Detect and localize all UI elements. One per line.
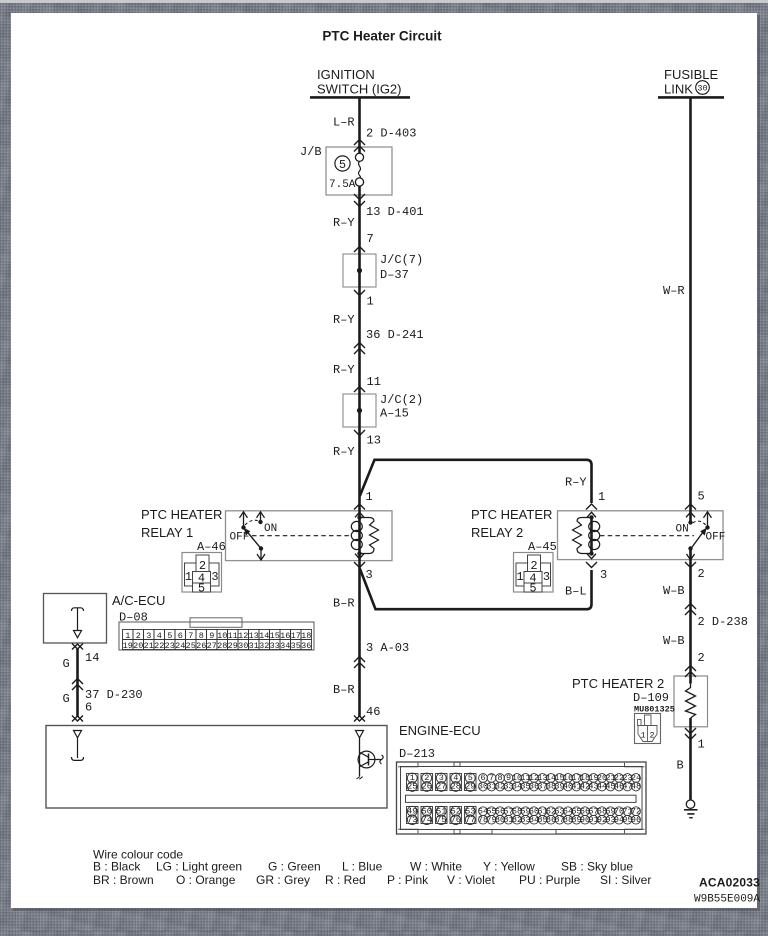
svg-text:6: 6: [85, 701, 92, 715]
svg-text:RELAY 1: RELAY 1: [141, 525, 193, 540]
relay 1 switch blade: [244, 528, 251, 536]
svg-text:W : White: W : White: [410, 860, 462, 874]
svg-text:14: 14: [85, 651, 99, 665]
svg-text:B : Black: B : Black: [93, 860, 141, 874]
relay 2 coil pin arrows and joints: [587, 512, 596, 517]
relay1 pin 3: [354, 562, 365, 568]
svg-text:2 D-238: 2 D-238: [698, 615, 748, 629]
svg-text:3: 3: [543, 570, 550, 584]
svg-text:PTC HEATER: PTC HEATER: [471, 507, 552, 522]
A/C-ECU box: [44, 594, 107, 644]
svg-text:6: 6: [178, 631, 183, 641]
relay 1 switch travel arc: [245, 520, 258, 525]
svg-text:ENGINE-ECU: ENGINE-ECU: [399, 723, 481, 738]
ground: [686, 800, 694, 808]
svg-text:W–R: W–R: [663, 284, 685, 298]
wire: ignition switch to J/B fuse: [358, 98, 361, 154]
relay 1 coil pin arrows and joints: [355, 512, 364, 517]
svg-text:2: 2: [698, 651, 705, 665]
svg-text:LG : Light green: LG : Light green: [156, 860, 242, 874]
A/C-ECU internal driver symbol: [72, 608, 84, 611]
relay 2 resistor: [573, 518, 592, 554]
svg-text:R : Red: R : Red: [325, 873, 366, 887]
svg-text:9: 9: [209, 631, 214, 641]
svg-text:FUSIBLE: FUSIBLE: [664, 67, 719, 82]
PTC heater 2 pin 1: [685, 728, 696, 734]
svg-text:OFF: OFF: [706, 532, 726, 544]
svg-text:48: 48: [631, 782, 641, 792]
joint connector J/C(7) D-37 box: [343, 254, 376, 287]
connector grid ENGINE-ECU D-213: [397, 762, 647, 834]
svg-text:3: 3: [146, 631, 151, 641]
connector 2 D-238: [685, 604, 696, 610]
svg-text:29: 29: [228, 641, 238, 651]
svg-text:27: 27: [207, 641, 217, 651]
svg-text:ON: ON: [264, 523, 277, 535]
PTC HEATER 2 resistor box: [674, 676, 708, 727]
svg-text:11: 11: [367, 375, 381, 389]
svg-text:7: 7: [367, 232, 374, 246]
svg-text:28: 28: [217, 641, 227, 651]
wire: relay 2 switch output down to PTC heater 2: [689, 549, 692, 684]
svg-text:22: 22: [154, 641, 164, 651]
svg-text:SI : Silver: SI : Silver: [600, 873, 651, 887]
A/C-ECU pin 14: [72, 644, 83, 650]
ENGINE-ECU box: [46, 726, 387, 809]
svg-text:10: 10: [217, 631, 227, 641]
svg-text:RELAY 2: RELAY 2: [471, 525, 523, 540]
svg-text:36 D-241: 36 D-241: [366, 328, 424, 342]
svg-text:26: 26: [422, 782, 432, 792]
svg-text:O : Orange: O : Orange: [176, 873, 236, 887]
connector 13 D-401: [354, 194, 365, 200]
svg-text:12: 12: [238, 631, 248, 641]
svg-text:PU : Purple: PU : Purple: [519, 873, 581, 887]
relay 1 ON contact pin: [260, 513, 262, 522]
svg-text:2: 2: [698, 567, 705, 581]
svg-text:73: 73: [407, 815, 417, 825]
svg-text:11: 11: [228, 631, 238, 641]
relay 1 resistor: [360, 518, 379, 554]
relay 1 coil: [351, 521, 362, 531]
svg-text:35: 35: [291, 641, 301, 651]
svg-text:25: 25: [407, 782, 417, 792]
svg-text:77: 77: [465, 815, 475, 825]
svg-text:74: 74: [422, 815, 432, 825]
svg-text:Y : Yellow: Y : Yellow: [483, 860, 535, 874]
pin 1 of J/C(7): [354, 290, 365, 296]
svg-text:W–B: W–B: [663, 634, 685, 648]
svg-text:G : Green: G : Green: [268, 860, 321, 874]
svg-text:PTC HEATER: PTC HEATER: [141, 507, 222, 522]
svg-text:BR : Brown: BR : Brown: [93, 873, 154, 887]
svg-text:75: 75: [436, 815, 446, 825]
svg-text:30: 30: [238, 641, 248, 651]
svg-text:5: 5: [529, 581, 536, 595]
svg-text:27: 27: [436, 782, 446, 792]
svg-text:1: 1: [185, 570, 192, 584]
svg-text:7.5A: 7.5A: [329, 179, 356, 191]
svg-text:1: 1: [516, 570, 523, 584]
svg-text:13 D-401: 13 D-401: [366, 205, 424, 219]
svg-text:J/C(2): J/C(2): [380, 393, 423, 407]
relay 2 output arrow: [690, 549, 692, 560]
relay box PTC HEATER RELAY 1: [226, 511, 393, 561]
wire: B-L branch from relay 2 coil pin 3 back to trunk: [360, 569, 592, 610]
svg-text:R–Y: R–Y: [565, 476, 587, 490]
wire: PTC heater 2 to ground: [689, 718, 692, 801]
svg-text:33: 33: [270, 641, 280, 651]
svg-text:1: 1: [598, 490, 605, 504]
svg-text:J/B: J/B: [300, 145, 322, 159]
svg-text:30: 30: [697, 84, 707, 94]
svg-text:3: 3: [600, 568, 607, 582]
wire: fusible link down to relay 2 switch: [689, 98, 692, 523]
svg-text:PTC Heater Circuit: PTC Heater Circuit: [322, 29, 442, 44]
svg-text:1: 1: [366, 490, 373, 504]
svg-text:19: 19: [123, 641, 133, 651]
svg-text:V : Violet: V : Violet: [447, 873, 495, 887]
svg-text:J/C(7): J/C(7): [380, 253, 423, 267]
svg-text:25: 25: [186, 641, 196, 651]
svg-text:1: 1: [640, 731, 645, 741]
svg-text:76: 76: [451, 815, 461, 825]
svg-text:IGNITION: IGNITION: [317, 67, 375, 82]
svg-text:L : Blue: L : Blue: [342, 860, 383, 874]
relay 2 OFF contact pin: [707, 513, 709, 528]
wire: A/C-ECU pin 14 down to engine-ECU pin 6: [76, 649, 79, 717]
relay 2 switch common joint: [686, 512, 695, 517]
engine-ECU internal: pin 6 input symbol: [74, 731, 82, 738]
engine-ECU internal: pin 46 transistor driver: [356, 731, 364, 738]
svg-text:3: 3: [366, 568, 373, 582]
svg-text:13: 13: [367, 434, 381, 448]
svg-text:14: 14: [259, 631, 269, 641]
connector MU801325 icon: [635, 714, 661, 744]
svg-text:B–R: B–R: [333, 597, 355, 611]
svg-text:1: 1: [125, 631, 130, 641]
J/C(7) centre joint: [357, 268, 362, 273]
svg-text:5: 5: [339, 158, 346, 172]
svg-text:5: 5: [698, 490, 705, 504]
svg-text:3: 3: [211, 570, 218, 584]
svg-text:W–B: W–B: [663, 584, 685, 598]
J/C(2) centre joint: [357, 408, 362, 413]
svg-text:23: 23: [165, 641, 175, 651]
svg-text:W9B55E009A: W9B55E009A: [694, 894, 760, 906]
relay 1 output arrow: [260, 549, 262, 560]
svg-text:2: 2: [649, 731, 654, 741]
svg-text:L–R: L–R: [333, 116, 355, 130]
svg-text:A/C-ECU: A/C-ECU: [112, 593, 165, 608]
relay 2 coil: [589, 521, 600, 531]
svg-text:5: 5: [198, 581, 205, 595]
svg-text:A–15: A–15: [380, 407, 409, 421]
svg-text:GR : Grey: GR : Grey: [256, 873, 310, 887]
svg-text:B: B: [677, 758, 684, 772]
svg-text:28: 28: [451, 782, 461, 792]
svg-text:13: 13: [249, 631, 259, 641]
svg-text:G: G: [63, 657, 70, 671]
svg-text:D–213: D–213: [399, 747, 435, 761]
svg-text:R–Y: R–Y: [333, 216, 355, 230]
svg-text:R–Y: R–Y: [333, 363, 355, 377]
svg-text:46: 46: [366, 705, 380, 719]
svg-text:G: G: [63, 692, 70, 706]
svg-text:31: 31: [249, 641, 259, 651]
svg-text:1: 1: [698, 738, 705, 752]
svg-text:D–37: D–37: [380, 268, 409, 282]
svg-text:7: 7: [188, 631, 193, 641]
wire: fuse to engine-ECU (centre R-Y / B-R trunk): [358, 186, 361, 717]
svg-text:24: 24: [175, 641, 185, 651]
relay box PTC HEATER RELAY 2: [558, 511, 724, 560]
junction block J/B box: [326, 147, 392, 195]
svg-text:PTC HEATER 2: PTC HEATER 2: [572, 676, 664, 691]
svg-text:SB : Sky blue: SB : Sky blue: [561, 860, 633, 874]
svg-text:2: 2: [136, 631, 141, 641]
svg-text:16: 16: [280, 631, 290, 641]
svg-text:29: 29: [465, 782, 475, 792]
svg-text:20: 20: [133, 641, 143, 651]
svg-text:37 D-230: 37 D-230: [85, 688, 143, 702]
relay 2 contact dashed link: [600, 535, 694, 537]
svg-text:18: 18: [301, 631, 311, 641]
svg-text:ACA02033: ACA02033: [699, 876, 760, 890]
svg-text:32: 32: [259, 641, 269, 651]
svg-text:2 D-403: 2 D-403: [366, 127, 416, 141]
svg-text:34: 34: [280, 641, 290, 651]
connector 37 D-230: [72, 679, 83, 685]
joint connector J/C(2) A-15 box: [343, 394, 376, 427]
svg-text:3 A-03: 3 A-03: [366, 641, 409, 655]
relay 2 pin 3: [586, 562, 597, 568]
wire: R-Y branch from trunk to relay 2 coil pin 1: [360, 460, 592, 503]
svg-text:17: 17: [291, 631, 301, 641]
svg-text:B–L: B–L: [565, 585, 587, 599]
svg-text:R–Y: R–Y: [333, 313, 355, 327]
svg-text:36: 36: [301, 641, 311, 651]
svg-text:B–R: B–R: [333, 683, 355, 697]
svg-text:R–Y: R–Y: [333, 445, 355, 459]
pin 13 of J/C(2): [354, 430, 365, 436]
svg-text:LINK: LINK: [664, 82, 693, 97]
relay 2 switch blade: [700, 528, 707, 536]
svg-text:96: 96: [631, 815, 641, 825]
PTC heater 2 resistor element: [686, 683, 696, 718]
svg-text:P : Pink: P : Pink: [387, 873, 429, 887]
svg-text:ON: ON: [676, 524, 689, 536]
svg-text:5: 5: [167, 631, 172, 641]
relay 2 switch travel arc: [693, 521, 706, 525]
svg-text:15: 15: [270, 631, 280, 641]
svg-text:MU801325: MU801325: [634, 704, 675, 714]
svg-text:D–109: D–109: [633, 691, 669, 705]
relay 2 pin 2: [685, 562, 696, 568]
relay 1 switch common pin: [243, 513, 245, 528]
svg-text:4: 4: [157, 631, 162, 641]
relay 1 contact dashed link: [252, 535, 351, 537]
svg-text:26: 26: [196, 641, 206, 651]
svg-text:21: 21: [144, 641, 154, 651]
svg-text:SWITCH (IG2): SWITCH (IG2): [317, 82, 402, 97]
svg-text:1: 1: [367, 295, 374, 309]
svg-text:8: 8: [199, 631, 204, 641]
connector grid A/C-ECU D-08: [190, 618, 242, 628]
